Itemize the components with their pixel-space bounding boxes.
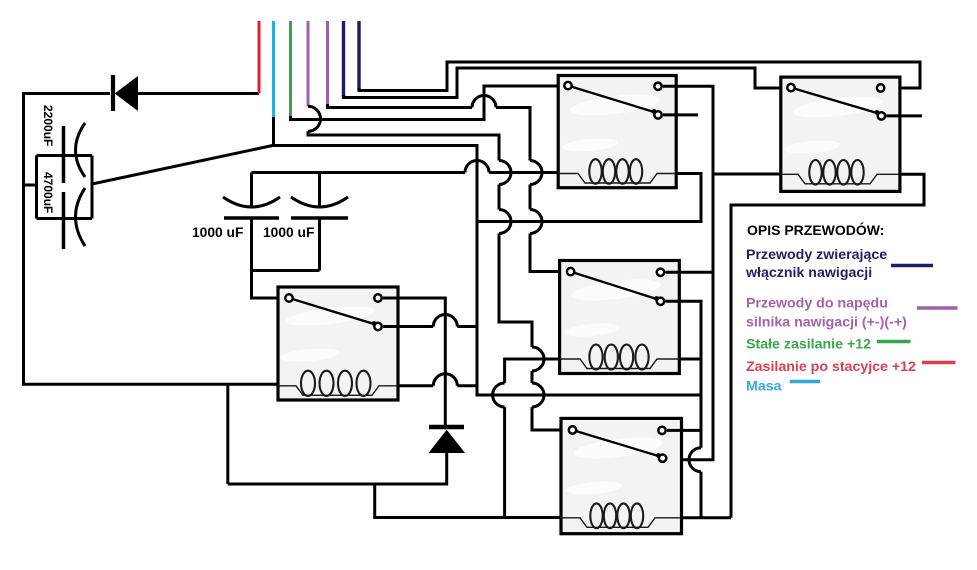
relay K3 box: [560, 261, 680, 374]
relay K2 terminal mid-right: [878, 112, 885, 119]
wire diode row: [22, 92, 259, 95]
hop purple1 riser over 222 wire: [499, 210, 511, 234]
legend red sample wire: [922, 361, 956, 364]
hop purple1 riser over relay K3 coil wire: [532, 347, 544, 371]
wire relay K2 coil-left to shared bus: [713, 173, 781, 176]
hop purple1 riser over rail: [499, 161, 511, 185]
relay K4 terminal top-right: [658, 427, 665, 434]
wire green stale zasilanie: [289, 21, 292, 118]
relay K4 terminal mid-right: [659, 455, 666, 462]
wire navy2 switch loop: [357, 21, 360, 90]
relay K3 terminal mid-right: [657, 298, 664, 305]
wire 1000uF rail to relay K1 coil: [252, 171, 560, 174]
hop mid riser over K4 NC wire: [689, 448, 701, 472]
wire relay K3 coil-left down to ground run: [505, 359, 560, 517]
relay K2 terminal top-right: [877, 84, 884, 91]
relay K5 terminal top-left: [285, 294, 292, 301]
wire left rail: [22, 94, 25, 385]
relay K5 terminal mid-right: [374, 323, 381, 330]
hop purple1 over green: [308, 106, 321, 131]
relay K4 coil: [561, 503, 682, 528]
legend purple sample wire: [917, 306, 958, 309]
wire relay K3 coil-right: [679, 358, 701, 361]
capacitor C1 2200uF plates: [64, 123, 86, 183]
relay K3 switch arm: [571, 272, 657, 299]
svg-text:1000 uF: 1000 uF: [192, 225, 243, 240]
svg-text:Przewody do napędu: Przewody do napędu: [746, 296, 888, 312]
wire relay K5 NO to diode D2: [383, 298, 445, 427]
relay K1 coil: [558, 159, 676, 184]
wire relay K2 NO stub: [886, 114, 922, 117]
relay K5 coil: [278, 371, 398, 396]
hop K5 NC wire over diode drop: [433, 315, 457, 327]
wire relay K3 NO riser down: [666, 301, 702, 517]
relay K1 terminal top-left: [564, 82, 571, 89]
relay K2 coil: [781, 160, 900, 185]
svg-text:4700uF: 4700uF: [41, 172, 55, 213]
wire purple1 black continuation to relay K4: [308, 131, 568, 430]
capacitor C3 1000uF: [223, 173, 280, 271]
wire navy1 black continuation to relay K2: [344, 68, 787, 98]
relay K4 switch arm: [573, 430, 659, 456]
relay K5 switch arm: [289, 298, 374, 324]
wire ground run to relay K4 coil: [375, 484, 562, 518]
svg-text:Przewody zwierające: Przewody zwierające: [746, 247, 887, 263]
hop rail over cyan riser: [465, 161, 489, 173]
capacitor C2 4700uF plates: [64, 188, 86, 249]
relay K3 coil: [560, 345, 680, 370]
wire diagonal from capacitor bank to node A: [92, 146, 273, 185]
hop K3 coil drop over cyan bottom wire: [493, 383, 505, 407]
hop K5 coil wire over diode drop: [433, 374, 457, 386]
wire relay K1 NO stub: [663, 113, 698, 116]
relay K4 terminal top-left: [569, 426, 576, 433]
wire relay K1 common riser shared bus: [663, 86, 713, 459]
relay K2 switch arm: [791, 88, 877, 113]
wire red battery feed: [258, 21, 261, 94]
wire relay K2 coil-right big loop to relay K4 coil: [682, 174, 925, 518]
legend navy sample wire: [891, 264, 933, 267]
wire diode D2 to ground run: [228, 384, 447, 484]
wire navy1 switch loop: [342, 21, 345, 97]
wire capacitor bottom link to relay K5: [252, 218, 320, 298]
hop purple2 riser over 222 wire: [530, 210, 542, 234]
relay K1 box: [558, 76, 676, 188]
wire green black continuation to relay K1: [291, 86, 565, 120]
hop purple1 riser over cyan bottom wire: [532, 383, 544, 407]
wire cyan masa black continuation: [273, 117, 702, 395]
wire purple2 motor feed: [326, 21, 329, 107]
svg-text:OPIS PRZEWODÓW:: OPIS PRZEWODÓW:: [747, 221, 884, 238]
relay K4 box: [561, 418, 682, 533]
capacitor C4 1000uF: [291, 173, 348, 271]
wire relay K5 NC to cyan riser: [383, 325, 477, 328]
wire navy2 black continuation to relay K2: [359, 62, 920, 91]
wire cyan masa: [272, 21, 275, 119]
diode D2: [429, 427, 464, 453]
relay K1 switch arm: [568, 86, 654, 112]
svg-text:Zasilanie po stacyjce +12: Zasilanie po stacyjce +12: [746, 359, 916, 375]
svg-text:silnika nawigacji (+-)(-+): silnika nawigacji (+-)(-+): [746, 315, 907, 331]
diode D1: [113, 75, 138, 111]
wire bottom-left long to relay K5 coil: [22, 383, 279, 386]
hop purple2 over green riser: [472, 96, 496, 108]
legend green sample wire: [877, 340, 911, 343]
relay K3 terminal top-left: [567, 268, 574, 275]
relay K2 terminal top-left: [787, 84, 794, 91]
capacitor bank C1 C2 wiring loop: [22, 156, 92, 219]
relay K5 box: [278, 287, 398, 400]
relay K1 terminal top-right: [654, 83, 661, 90]
relay K1 terminal mid-right: [654, 111, 661, 118]
wire relay K4 top-right to mid riser: [667, 429, 701, 432]
svg-text:Masa: Masa: [746, 379, 782, 395]
wire purple2 black continuation to relay K3: [328, 104, 567, 272]
wire purple1 motor feed: [307, 21, 310, 107]
legend cyan sample wire: [790, 380, 820, 383]
wire relay K1 coil-right to node 222 to cyan: [477, 174, 701, 222]
svg-text:Stałe zasilanie +12: Stałe zasilanie +12: [746, 337, 871, 353]
relay K3 terminal top-right: [657, 269, 664, 276]
svg-text:włącznik nawigacji: włącznik nawigacji: [745, 265, 872, 281]
hop purple2 riser over rail: [530, 161, 542, 185]
svg-text:1000 uF: 1000 uF: [263, 225, 314, 240]
svg-text:2200uF: 2200uF: [41, 105, 55, 146]
wire relay K3 top-right to shared bus: [666, 271, 714, 274]
relay K2 box: [781, 77, 900, 191]
relay K5 terminal top-right: [374, 294, 381, 301]
wire relay K5 coil-right to cyan riser: [398, 384, 477, 387]
